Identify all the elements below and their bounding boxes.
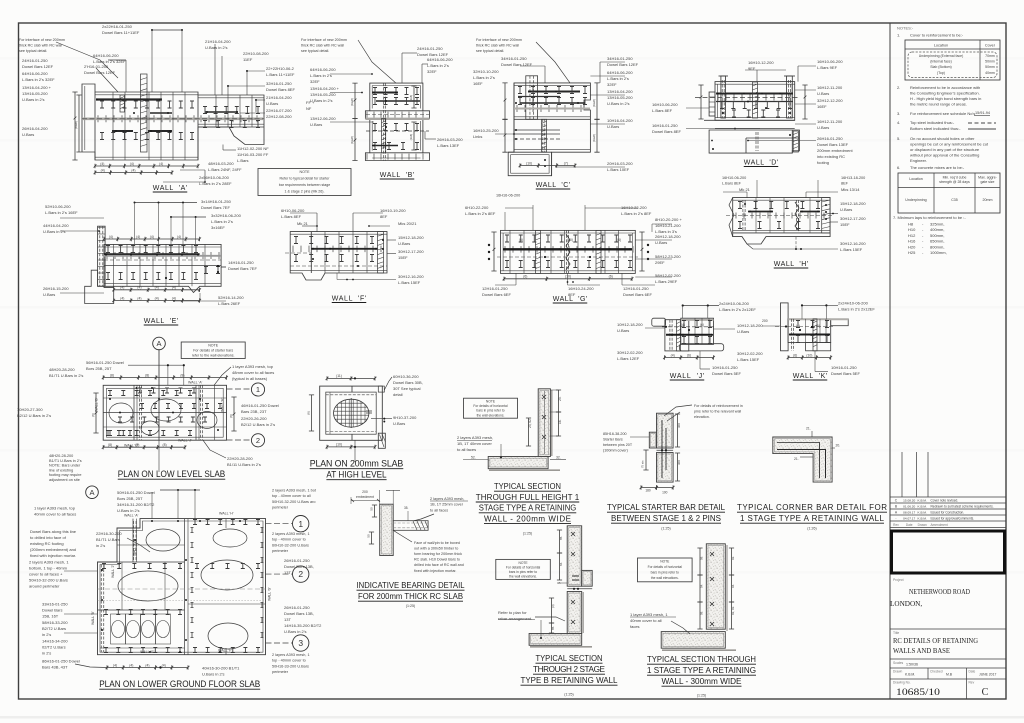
lower ground slab tick rows — [104, 610, 182, 615]
svg-text:85.: 85. — [551, 626, 555, 630]
svg-text:(6): (6) — [609, 275, 613, 279]
full height section base — [488, 457, 548, 469]
wall E dots — [105, 253, 107, 255]
wall K main block — [788, 319, 831, 343]
svg-text:6.: 6. — [897, 165, 900, 170]
svg-text:(4): (4) — [671, 353, 675, 357]
wall C inner face lines — [514, 84, 590, 86]
svg-text:15.08.20: 15.08.20 — [903, 499, 915, 503]
svg-text:Title: Title — [893, 631, 899, 635]
full height inner dim — [526, 418, 531, 446]
svg-text:Date: Date — [969, 670, 976, 674]
svg-text:(10): (10) — [806, 353, 812, 357]
wall H inner face lines — [733, 199, 830, 201]
wall G bottom dim row — [503, 277, 634, 281]
svg-text:WALL 'G': WALL 'G' — [553, 296, 588, 303]
wall C top column strip — [526, 76, 538, 120]
svg-text:The concrete mixes are to be:-: The concrete mixes are to be:- — [910, 165, 965, 170]
svg-text:(4): (4) — [681, 323, 685, 327]
two stage shadow lines — [582, 592, 584, 633]
wall J side leaders — [645, 327, 665, 329]
wall A thick top bar — [96, 98, 162, 100]
svg-text:50: 50 — [367, 534, 371, 538]
svg-text:(6): (6) — [700, 323, 704, 327]
svg-text:Cover to reinforcement to be:-: Cover to reinforcement to be:- — [910, 33, 964, 38]
svg-text:WALL 'K': WALL 'K' — [221, 397, 225, 412]
svg-text:08.: 08. — [700, 611, 704, 615]
wall F dots — [312, 248, 314, 250]
wall C band ticks — [517, 105, 581, 112]
svg-text:70mm50mm50mm40mm: 70mm50mm50mm40mm — [985, 54, 995, 75]
svg-text:38.: 38. — [557, 581, 561, 585]
wall H centerline — [726, 215, 834, 217]
wall A rebar dots — [96, 99, 98, 101]
wall J right block — [681, 318, 714, 344]
wall B flange tick strokes — [367, 112, 423, 118]
one stage 300 base — [661, 632, 725, 649]
lower ground bottom dim row — [106, 665, 190, 669]
svg-text:08.09.17: 08.09.17 — [903, 511, 915, 515]
wall G vdims — [491, 232, 496, 271]
svg-text:Redrawn to suit latest scheme: Redrawn to suit latest scheme requiremen… — [931, 505, 994, 509]
svg-text:(4): (4) — [109, 235, 113, 239]
note 1 cover table — [905, 40, 1000, 80]
svg-text:Scales: Scales — [893, 661, 903, 665]
svg-text:04.07.17: 04.07.17 — [903, 517, 915, 521]
svg-text:Rev: Rev — [969, 681, 975, 685]
low level slab internal walls — [133, 385, 135, 440]
wall A thick mid bars — [112, 130, 133, 132]
wall C leaders — [536, 42, 570, 83]
lower ground circle A — [86, 486, 99, 499]
wall C thick bars — [528, 91, 580, 93]
wall B body outline — [365, 83, 429, 160]
two stage joint detail — [567, 588, 592, 590]
starter bar dims — [655, 485, 674, 489]
svg-text:WALL 'C': WALL 'C' — [124, 444, 139, 448]
wall H posts — [742, 200, 744, 231]
full height base dims — [463, 459, 488, 461]
svg-text:(8): (8) — [110, 373, 114, 377]
svg-text:WALL - 200mm WIDE: WALL - 200mm WIDE — [484, 514, 571, 523]
svg-text:3: 3 — [298, 638, 303, 648]
wall G side dot columns — [488, 244, 490, 246]
svg-text:C: C — [982, 687, 989, 698]
wall G body outline — [501, 230, 636, 273]
svg-text:BETWEEN STAGE 1 & 2 PINS: BETWEEN STAGE 1 & 2 PINS — [611, 514, 721, 523]
svg-text:WALL 'A': WALL 'A' — [153, 185, 188, 192]
svg-text:12H16-01-250Dowel Bars 6EF: 12H16-01-250Dowel Bars 6EF — [482, 286, 511, 297]
svg-text:WALL 'A': WALL 'A' — [188, 381, 203, 385]
lower ground slab outline — [98, 519, 266, 655]
svg-text:WALL 'C': WALL 'C' — [536, 182, 571, 189]
wall E top dim row — [103, 237, 201, 241]
svg-text:2.: 2. — [897, 85, 900, 90]
svg-text:21H16-04-200U.Bars in 2's: 21H16-04-200U.Bars in 2's — [205, 39, 231, 50]
svg-text:14H16-01-250Dowel Bars 7EF: 14H16-01-250Dowel Bars 7EF — [228, 260, 257, 271]
wall G band ticks — [505, 246, 633, 253]
svg-text:1:50/36: 1:50/36 — [906, 663, 918, 667]
wall G right leaders — [652, 223, 672, 225]
wall F left panel divider — [310, 232, 312, 273]
svg-text:200: 200 — [362, 490, 368, 494]
wall H dots — [749, 211, 751, 213]
wall F internal verticals — [324, 232, 326, 273]
wall H right hatch strip — [822, 198, 830, 233]
bearing detail side dims — [372, 505, 377, 517]
wall E bottom dim rows — [112, 288, 201, 292]
svg-text:Min. req'd cubestrength @ 28 d: Min. req'd cubestrength @ 28 days — [939, 176, 970, 185]
svg-text:WALL 'D': WALL 'D' — [744, 160, 779, 167]
low level slab room ellipses — [109, 403, 133, 423]
wall G top leaders — [532, 205, 534, 230]
scan artifact bands — [0, 57, 1024, 60]
svg-text:WALL 'B': WALL 'B' — [91, 611, 95, 625]
svg-text:10H16-01-250Dowel Bars 5EF: 10H16-01-250Dowel Bars 5EF — [712, 365, 741, 376]
wall H internal verticals — [755, 198, 757, 233]
wall F section marks — [294, 237, 374, 244]
full height section wall — [538, 389, 550, 457]
svg-text:(4): (4) — [101, 168, 105, 172]
svg-text:WALLS AND BASE: WALLS AND BASE — [893, 647, 950, 655]
low level slab dots — [136, 387, 138, 389]
svg-text:50: 50 — [370, 507, 374, 511]
wall J internal verticals — [694, 318, 696, 344]
svg-text:(6): (6) — [793, 353, 797, 357]
one stage 300 right dims — [729, 548, 734, 575]
svg-text:Date: Date — [906, 523, 913, 527]
svg-text:200: 200 — [762, 319, 768, 323]
wall D dots — [717, 93, 719, 95]
svg-text:WALL 'J': WALL 'J' — [111, 565, 115, 578]
svg-text:16.: 16. — [558, 419, 562, 424]
wall D section marks — [720, 102, 792, 109]
svg-text:84.: 84. — [559, 562, 563, 566]
svg-text:08.: 08. — [700, 556, 704, 560]
wall C bottom dim row — [519, 163, 577, 167]
wall C left vdim — [502, 83, 507, 119]
wall K right arm — [831, 319, 849, 326]
wall F top leaders — [316, 213, 318, 232]
svg-text:32H16-01-250Dowel Bars 8EF: 32H16-01-250Dowel Bars 8EF — [266, 81, 295, 92]
wall E left step blocks — [85, 270, 114, 303]
svg-text:(4): (4) — [796, 324, 800, 328]
wall A hatched column — [141, 74, 148, 152]
low level slab side dims — [93, 393, 98, 433]
wall D band ticks — [718, 95, 790, 101]
svg-text:(btw8): (btw8) — [74, 121, 78, 129]
wall A upper section marks — [100, 101, 194, 108]
svg-text:(1:26): (1:26) — [807, 527, 816, 531]
svg-text:(4): (4) — [120, 296, 124, 300]
wall K pin strips — [790, 319, 792, 351]
title block — [890, 628, 1006, 630]
svg-text:16H16-01-250Dowel Bars 8EF: 16H16-01-250Dowel Bars 8EF — [652, 123, 681, 134]
wall D body outline — [715, 82, 795, 121]
wall D posts — [721, 76, 726, 118]
svg-text:180: 180 — [645, 489, 651, 493]
wall B dashed column — [383, 83, 385, 160]
svg-text:WALL 'K': WALL 'K' — [793, 373, 828, 380]
svg-text:LONDON,: LONDON, — [890, 600, 922, 608]
starter bar vertical bars — [661, 420, 663, 478]
svg-text:01.06.20: 01.06.20 — [903, 505, 915, 509]
one stage 300 wall — [706, 544, 725, 629]
svg-text:(4): (4) — [155, 296, 159, 300]
wall J bottom leader — [699, 351, 701, 369]
svg-text:3.: 3. — [897, 111, 900, 116]
svg-text:WALL 'J': WALL 'J' — [670, 373, 705, 380]
svg-text:12H16-01-250Dowel Bars 6EF: 12H16-01-250Dowel Bars 6EF — [623, 286, 652, 297]
wall H body outline — [733, 198, 830, 244]
svg-text:PLAN ON LOWER GROUND FLOOR SLA: PLAN ON LOWER GROUND FLOOR SLAB — [99, 679, 260, 689]
wall B dots — [373, 92, 375, 94]
svg-text:1 STAGE TYPE A RETAINING: 1 STAGE TYPE A RETAINING — [647, 666, 756, 675]
svg-text:(10): (10) — [526, 161, 532, 165]
wall J main block — [665, 320, 689, 351]
wall K side leaders — [762, 325, 781, 327]
two stage upper wall — [567, 526, 582, 586]
svg-text:(4): (4) — [130, 162, 134, 166]
svg-text:TYPE B RETAINING WALL: TYPE B RETAINING WALL — [521, 676, 618, 685]
wall D footing interior — [755, 132, 757, 151]
wall A bottom dim row 2 — [94, 170, 174, 174]
low level slab extra hatch strips — [138, 385, 140, 440]
svg-text:(8): (8) — [180, 373, 184, 377]
wall J section marks — [682, 321, 712, 328]
svg-text:Top steel indicated thus:-Bott: Top steel indicated thus:-Bottom steel i… — [910, 120, 961, 131]
two stage left dims — [557, 530, 562, 553]
svg-text:(2x8): (2x8) — [409, 134, 413, 140]
svg-text:(6): (6) — [523, 275, 527, 279]
wall F band ticks — [293, 246, 381, 253]
svg-text:(4): (4) — [177, 235, 181, 239]
svg-text:(1:25): (1:25) — [406, 604, 415, 608]
drawn checked date row — [890, 667, 1006, 669]
svg-text:100: 100 — [662, 491, 668, 495]
lower ground slab small fixtures — [112, 621, 125, 638]
note box below wall B — [258, 169, 351, 196]
svg-text:INDICATIVE BEARING DETAIL: INDICATIVE BEARING DETAIL — [357, 580, 465, 590]
svg-text:23.: 23. — [558, 396, 562, 401]
svg-text:44H16-04-200U.Bars in 2's: 44H16-04-200U.Bars in 2's — [43, 223, 69, 234]
wall A right section marks — [203, 107, 260, 114]
svg-text:04.: 04. — [700, 584, 704, 588]
two stage rebar marks — [571, 532, 575, 624]
wall A right leader lines — [30, 29, 228, 31]
wall H section marks — [738, 202, 820, 209]
svg-text:Mks 13/14: Mks 13/14 — [841, 187, 860, 192]
svg-text:(4): (4) — [120, 286, 124, 290]
full height rebar marks — [542, 395, 546, 439]
wall J left arm — [652, 318, 666, 326]
wall B centerlines — [366, 130, 429, 132]
bearing detail wall strip — [380, 504, 394, 555]
svg-text:(10): (10) — [567, 238, 573, 242]
wall C lower horiz lines — [514, 129, 560, 131]
svg-text:(6): (6) — [816, 324, 820, 328]
svg-text:(4): (4) — [131, 168, 135, 172]
svg-text:NOTES:-: NOTES:- — [897, 26, 914, 31]
wall F thick bar — [311, 248, 377, 250]
svg-text:02, 03.: 02, 03. — [731, 606, 735, 615]
svg-text:WALL 'A': WALL 'A' — [124, 514, 139, 518]
svg-text:(4): (4) — [145, 663, 149, 667]
wall B inner face lines — [371, 86, 373, 109]
svg-text:Issued for Construction.: Issued for Construction. — [931, 511, 965, 515]
svg-text:WALL 'G': WALL 'G' — [268, 587, 272, 601]
wall A left vertical dim — [72, 92, 77, 160]
wall K bottom leader — [814, 351, 816, 372]
wall E section marks — [106, 246, 198, 253]
two stage nib block — [582, 570, 593, 586]
starter bar upper wall — [657, 413, 674, 448]
svg-text:(4): (4) — [159, 162, 163, 166]
svg-text:85.: 85. — [559, 536, 563, 540]
svg-text:Cover note revised.: Cover note revised. — [931, 499, 959, 503]
wall K section marks — [796, 321, 829, 328]
wall B left vdim — [352, 83, 357, 118]
wall K centerline — [775, 326, 834, 328]
lower ground slab dots — [151, 520, 153, 522]
svg-text:(1:25): (1:25) — [523, 532, 532, 536]
bearing detail slab arm — [393, 521, 428, 531]
svg-text:Project: Project — [893, 578, 904, 582]
wall G section marks — [505, 235, 632, 242]
wall J dim row — [663, 355, 715, 359]
svg-text:(1:25): (1:25) — [661, 527, 670, 531]
lower ground slab wall ticks left — [102, 564, 182, 569]
high level slab corner tabs — [378, 386, 384, 392]
wall D left attachment — [709, 92, 715, 116]
wall J foot — [679, 344, 723, 351]
lower ground slab extra partitions — [188, 603, 266, 605]
svg-text:WALL 'F': WALL 'F' — [332, 296, 367, 303]
notes panel divider — [889, 23, 891, 699]
wall C grey line — [514, 108, 590, 110]
low level slab bottom dim row — [102, 445, 187, 449]
svg-text:(4): (4) — [137, 296, 141, 300]
svg-text:WALL 'B': WALL 'B' — [95, 397, 99, 412]
wall D lower band — [715, 128, 795, 130]
svg-text:For reinforcement see schedule: For reinforcement see schedule No's — [910, 111, 975, 116]
wall E band ticks — [107, 252, 219, 259]
svg-text:WALL 'K': WALL 'K' — [133, 542, 137, 556]
wall G centerline — [497, 256, 638, 258]
one stage 300 note box — [638, 558, 693, 582]
high level slab outer square — [320, 386, 383, 440]
wall A inner face lines — [95, 94, 198, 96]
wall E mid horizontal — [104, 265, 221, 267]
two stage lower wall — [567, 592, 582, 634]
svg-text:K.B.M.: K.B.M. — [918, 505, 927, 509]
wall H right leaders — [830, 213, 838, 215]
low level slab tick marks — [108, 391, 192, 396]
svg-text:AT HIGH LEVEL: AT HIGH LEVEL — [326, 470, 386, 480]
wall C body outline — [508, 83, 590, 176]
revision table — [890, 496, 1006, 498]
one stage 300 rebar marks — [710, 552, 714, 626]
wall C dots — [515, 102, 517, 104]
svg-text:325mm,400mm,500mm,650mm,800mm,: 325mm,400mm,500mm,650mm,800mm,1000mm, — [930, 222, 947, 256]
wall K left strip — [781, 303, 789, 351]
svg-text:-: - — [895, 517, 896, 521]
svg-text:WALL - 300mm WIDE: WALL - 300mm WIDE — [662, 677, 743, 686]
svg-text:K.B.M.: K.B.M. — [918, 499, 927, 503]
wall B leaders — [358, 40, 396, 83]
svg-text:75 sts: 75 sts — [641, 460, 645, 468]
svg-text:(8): (8) — [229, 414, 233, 418]
svg-text:(4): (4) — [137, 286, 141, 290]
svg-text:WALL 'H': WALL 'H' — [219, 512, 234, 516]
wall A right lower marks — [203, 121, 260, 128]
wall H thick bars — [748, 211, 773, 213]
wall H band ticks — [736, 213, 824, 219]
wall F right hatch strip — [378, 232, 384, 273]
svg-text:(11): (11) — [336, 374, 342, 378]
wall A lower section marks — [100, 133, 194, 140]
lower ground slab vertical tick cols — [191, 528, 194, 533]
svg-text:WALL 'F': WALL 'F' — [218, 649, 232, 653]
drawing number row — [890, 678, 1006, 680]
svg-text:1.: 1. — [897, 33, 900, 38]
svg-text:TYPICAL SECTION: TYPICAL SECTION — [536, 654, 603, 663]
svg-text:21.: 21. — [806, 427, 811, 431]
wall H bottom band line — [733, 232, 830, 234]
wall F centerlines — [285, 252, 311, 254]
svg-text:22+22H10-06-2L.Bars 11+11EF: 22+22H10-06-2L.Bars 11+11EF — [266, 66, 295, 77]
full height note box — [464, 398, 518, 418]
svg-text:(4): (4) — [162, 663, 166, 667]
wall D inner face lines — [715, 83, 795, 85]
svg-text:FOR 200mm THICK RC SLAB: FOR 200mm THICK RC SLAB — [358, 591, 463, 601]
wall E body outline — [104, 244, 221, 292]
wall B grey band — [365, 118, 429, 120]
svg-text:10685/10: 10685/10 — [896, 688, 940, 698]
wall J dots — [671, 334, 673, 336]
svg-text:K.B.M.: K.B.M. — [918, 517, 927, 521]
wall H break edge left — [729, 198, 734, 237]
svg-text:(10): (10) — [336, 443, 342, 447]
wall E side leaders — [60, 217, 104, 219]
svg-text:(4): (4) — [100, 162, 104, 166]
two stage note box — [496, 559, 551, 579]
svg-text:Location: Location — [909, 177, 923, 181]
svg-text:13H16-04-20013H16-05-200U.Bars: 13H16-04-20013H16-05-200U.Bars in 2's — [607, 89, 633, 106]
svg-text:(btw8): (btw8) — [592, 134, 596, 142]
svg-text:Mk 21: Mk 21 — [739, 187, 751, 192]
svg-text:THROUGH FULL HEIGHT 1: THROUGH FULL HEIGHT 1 — [476, 493, 580, 502]
svg-text:M.B: M.B — [946, 673, 953, 677]
svg-text:TYPICAL SECTION THROUGH: TYPICAL SECTION THROUGH — [647, 655, 756, 664]
svg-text:Cover: Cover — [985, 44, 996, 48]
svg-text:TYPICAL SECTION: TYPICAL SECTION — [494, 482, 561, 491]
svg-text:Mk 21: Mk 21 — [297, 221, 309, 226]
wall F right leaders — [387, 239, 396, 241]
wall K lower extension — [806, 343, 831, 351]
svg-text:Drawing No.: Drawing No. — [893, 681, 911, 685]
lower ground grid circles — [293, 516, 309, 532]
svg-text:(2x8): (2x8) — [409, 95, 413, 101]
wall F inner face lines — [290, 233, 387, 235]
svg-text:(btw8): (btw8) — [592, 99, 596, 107]
svg-text:Drawn: Drawn — [893, 670, 902, 674]
svg-text:2x56H10-06-200L.Bars in 2's 28: 2x56H10-06-200L.Bars in 2's 28EF — [199, 175, 232, 186]
svg-text:(7): (7) — [564, 161, 568, 165]
svg-text:20mm: 20mm — [983, 198, 993, 202]
wall J pin strips — [669, 320, 671, 351]
svg-text:JUNE 2017: JUNE 2017 — [979, 673, 996, 677]
